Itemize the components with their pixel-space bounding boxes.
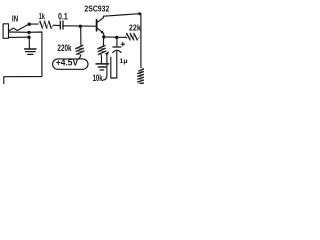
- ground G2: [96, 63, 109, 65]
- svg-text:IN: IN: [12, 13, 18, 23]
- node B (base bias junction): [79, 25, 82, 28]
- wire node B down to R2: [80, 26, 82, 45]
- wire tip node to R1: [29, 23, 38, 25]
- supply bubble +4.5V: [53, 59, 88, 69]
- svg-text:220k: 220k: [57, 43, 71, 53]
- resistor R1 1k slashes: [40, 21, 51, 28]
- capacitor C1 left plate: [59, 21, 61, 29]
- svg-text:0.1: 0.1: [58, 11, 68, 21]
- resistor R3 22k slashes: [127, 33, 138, 40]
- wire node F to ground: [28, 37, 30, 48]
- transistor Q1 emitter lead with arrow: [97, 28, 103, 33]
- node D (output/cap junction): [115, 36, 118, 39]
- wire R4 to ground: [100, 55, 102, 63]
- resistor R2 220k connectors: [76, 45, 84, 55]
- wire R2 to supply bubble: [79, 55, 81, 59]
- capacitor C2 curved bottom plate: [113, 50, 121, 52]
- svg-text:1k: 1k: [39, 11, 45, 21]
- wire C1 to base: [64, 25, 96, 27]
- leader arrow from 10k to R4: [103, 54, 107, 81]
- svg-text:10k: 10k: [93, 73, 103, 83]
- wire collector rail top and right rail: [104, 14, 141, 68]
- resistor R4 10k connectors: [98, 45, 106, 55]
- ground G1: [25, 48, 36, 50]
- jack middle contact wire: [9, 31, 28, 33]
- resistor R3 22k connectors: [126, 33, 141, 40]
- resistor R5 bottom right slashes (cropped): [138, 69, 144, 85]
- capacitor C1 right plate: [62, 21, 64, 29]
- jack sleeve contact wire: [9, 36, 28, 38]
- svg-text:2SC932: 2SC932: [84, 4, 109, 13]
- node F (sleeve): [27, 36, 30, 39]
- junction blob top right: [138, 12, 141, 15]
- resistor R5 connectors: [138, 67, 144, 83]
- capacitor C2 lead from node D: [116, 39, 118, 47]
- node E (middle): [27, 31, 30, 34]
- node A (tip): [28, 23, 31, 26]
- input jack J1 body: [3, 24, 8, 39]
- transistor Q1 collector lead: [97, 16, 103, 22]
- jack tip contact arm: [9, 25, 28, 31]
- polarity + mark: [121, 43, 124, 45]
- wire node E to bottom left: [4, 32, 42, 85]
- svg-text:1µ: 1µ: [119, 58, 127, 65]
- resistor R2 220k slashes: [76, 45, 84, 54]
- resistor R4 10k stem: [102, 38, 104, 45]
- resistor R1 1k connectors: [38, 21, 53, 28]
- wire emitter node right: [104, 36, 127, 39]
- svg-text:+4.5V: +4.5V: [56, 58, 79, 68]
- node C (emitter): [102, 35, 105, 38]
- svg-text:22k: 22k: [129, 23, 141, 33]
- transistor Q1 base bar: [96, 20, 98, 31]
- capacitor C2 top plate: [113, 46, 121, 48]
- wire C2 bottom return loop: [111, 51, 117, 78]
- resistor R4 10k slashes: [98, 46, 106, 55]
- wire R1 to C1: [53, 24, 60, 26]
